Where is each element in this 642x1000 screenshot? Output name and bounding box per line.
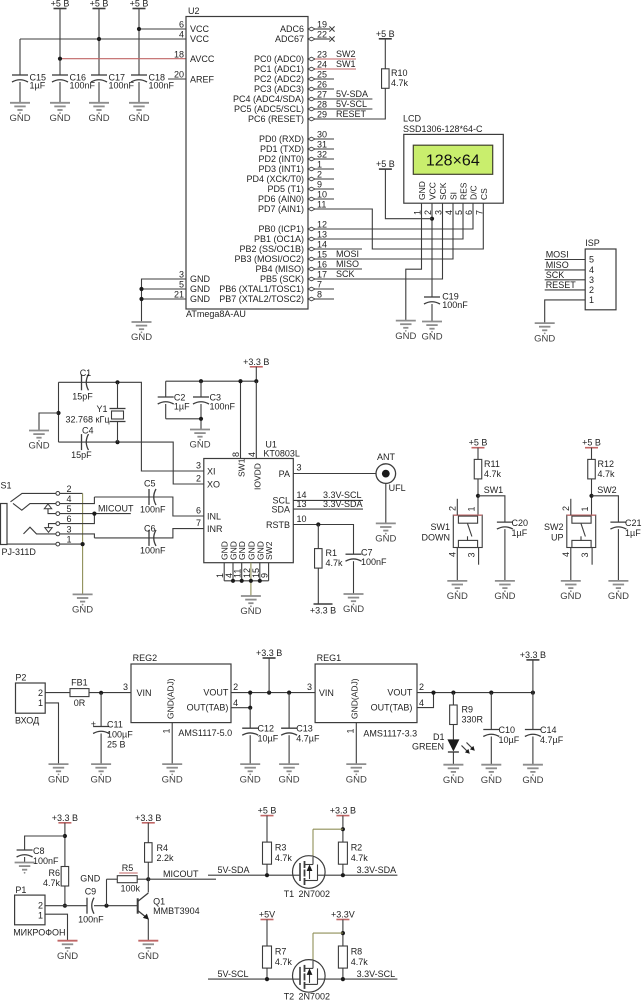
svg-text:3: 3: [179, 270, 184, 280]
svg-text:R8: R8: [351, 946, 363, 956]
svg-text:RES: RES: [459, 182, 469, 200]
wire C13 column: [288, 693, 290, 729]
ground crystal: [28, 431, 49, 452]
wire IOVDD rail: [166, 367, 257, 397]
svg-text:4.7k: 4.7k: [598, 469, 616, 479]
ground C13: [279, 764, 300, 785]
svg-text:+5 В: +5 В: [582, 438, 601, 448]
svg-text:1: 1: [467, 506, 477, 511]
svg-text:MICOUT: MICOUT: [98, 504, 134, 514]
power flag +3.3V (mic): [52, 813, 78, 823]
capacitor C15: [12, 73, 46, 103]
svg-text:2: 2: [589, 285, 594, 295]
ground SW1 pin4: [447, 581, 468, 602]
svg-text:R10: R10: [391, 68, 408, 78]
svg-text:SW1: SW1: [237, 458, 247, 477]
svg-text:5V-SDA: 5V-SDA: [336, 89, 368, 99]
svg-text:+5 В: +5 В: [258, 806, 277, 816]
svg-text:4.7k: 4.7k: [351, 853, 369, 863]
wire SW2 pin2 stub: [570, 499, 572, 515]
wire SW1 pin3 stub: [478, 548, 480, 565]
power flag +3.3V (REG2): [256, 648, 282, 658]
regulator REG1 AMS1117-3.3: [315, 653, 417, 739]
wire PD0 stub: [315, 138, 334, 140]
ground C16: [49, 103, 70, 124]
svg-text:100nF: 100nF: [109, 81, 135, 91]
svg-text:XI: XI: [207, 467, 216, 477]
capacitor C16: [52, 73, 96, 103]
capacitor C21: [610, 518, 641, 581]
SW2 pin numbers: [561, 506, 590, 558]
svg-text:GND: GND: [481, 775, 502, 786]
svg-text:C14: C14: [540, 725, 557, 735]
svg-text:29: 29: [317, 110, 327, 120]
resistor R9: [450, 705, 484, 725]
wire REG2 vout: [231, 692, 315, 694]
node 3.3V-SCL: [341, 977, 345, 981]
wire jack pin3 to C6: [60, 534, 95, 538]
node R9: [451, 691, 455, 695]
wire ADC67 nc: [315, 38, 330, 40]
svg-text:100nF: 100nF: [140, 505, 166, 515]
svg-text:+3.3 В: +3.3 В: [52, 813, 78, 823]
wire +5 to R7: [266, 920, 268, 947]
svg-text:PB5 (SCK): PB5 (SCK): [260, 274, 304, 284]
wire C17 column: [98, 9, 100, 76]
svg-text:1: 1: [589, 295, 594, 305]
wire +5V to LCD: [385, 169, 432, 219]
svg-text:R1: R1: [326, 548, 338, 558]
svg-text:7: 7: [474, 210, 484, 215]
wire PB0 to LCD D/C: [315, 203, 473, 229]
capacitor C18: [131, 73, 175, 103]
wire C6 row: [94, 529, 204, 538]
svg-text:SI: SI: [449, 192, 459, 200]
svg-text:5: 5: [454, 210, 464, 215]
U1 pin numbers: [196, 452, 307, 578]
svg-text:PD2 (INT0): PD2 (INT0): [258, 154, 304, 164]
node VCC pin6: [137, 27, 141, 31]
wire PC2 stub: [315, 78, 334, 80]
svg-text:PC3 (ADC3): PC3 (ADC3): [254, 84, 304, 94]
svg-text:2: 2: [233, 682, 238, 692]
svg-text:2N7002: 2N7002: [299, 991, 331, 1000]
net SW1 (PC1): [315, 59, 356, 69]
wire R2 bottom: [342, 864, 344, 875]
wire R5 right: [137, 878, 148, 880]
wire R1 bottom: [317, 568, 319, 604]
svg-text:27: 27: [317, 90, 327, 100]
wire jack pin1: [60, 543, 83, 545]
svg-text:4.7k: 4.7k: [275, 957, 293, 967]
svg-text:PB0 (ICP1): PB0 (ICP1): [258, 224, 304, 234]
capacitor C12: [242, 724, 278, 765]
node jack gnd: [81, 542, 85, 546]
svg-text:6: 6: [179, 20, 184, 30]
wire PB1 to LCD RES: [315, 203, 463, 239]
switch SW2 labels: [544, 522, 564, 543]
svg-text:1: 1: [67, 535, 72, 545]
transistor Q1 MMBT3904: [138, 879, 200, 919]
node REG2 tab: [248, 706, 252, 710]
svg-text:2.2k: 2.2k: [157, 853, 175, 863]
svg-text:PB6 (XTAL1/TOSC1): PB6 (XTAL1/TOSC1): [219, 284, 304, 294]
wire SW1 pin2 stub: [456, 499, 458, 515]
svg-text:GND: GND: [162, 774, 183, 785]
svg-text:3: 3: [589, 275, 594, 285]
svg-text:100nF: 100nF: [78, 915, 104, 925]
svg-text:SSD1306-128*64-C: SSD1306-128*64-C: [403, 124, 483, 134]
svg-text:VOUT: VOUT: [387, 687, 413, 697]
svg-text:Y1: Y1: [97, 404, 108, 414]
node RSTB: [316, 522, 320, 526]
wire C12 column: [249, 708, 251, 729]
node crystal top: [115, 380, 119, 384]
capacitor C6: [140, 524, 166, 556]
svg-text:PD7 (AIN1): PD7 (AIN1): [258, 204, 304, 214]
svg-text:GND(ADJ): GND(ADJ): [166, 678, 176, 719]
svg-text:3: 3: [434, 210, 444, 215]
ground ANT: [375, 523, 396, 544]
wire +3.3 mic: [64, 823, 66, 867]
power flag +5V (C16): [51, 0, 70, 9]
svg-text:IOVDD: IOVDD: [252, 463, 262, 490]
svg-text:LCD: LCD: [403, 114, 422, 124]
svg-text:XO: XO: [207, 480, 220, 490]
svg-text:16: 16: [317, 260, 327, 270]
svg-text:ATmega8A-AU: ATmega8A-AU: [186, 309, 246, 319]
svg-text:PD4 (XCK/T0): PD4 (XCK/T0): [246, 174, 304, 184]
wire C5 row: [94, 497, 204, 516]
svg-text:25: 25: [317, 70, 327, 80]
svg-text:GND: GND: [560, 591, 581, 602]
svg-text:23: 23: [317, 50, 327, 60]
ground C21: [608, 581, 629, 602]
svg-text:3.3V-SDA: 3.3V-SDA: [323, 499, 363, 509]
svg-text:100nF: 100nF: [149, 81, 175, 91]
wire R1 top: [317, 525, 319, 549]
net 5V-SCL: [208, 969, 293, 979]
power flag +5V (SW1): [469, 438, 488, 448]
svg-text:+3.3 В: +3.3 В: [330, 806, 356, 816]
wire drain rail: [313, 933, 343, 961]
node SW1 pin8: [238, 379, 242, 383]
svg-text:+3.3 В: +3.3 В: [256, 648, 282, 658]
node AVCC: [58, 57, 62, 61]
wire SW1 pin4: [456, 548, 458, 581]
svg-text:7: 7: [196, 518, 201, 528]
svg-text:REG1: REG1: [317, 653, 342, 663]
wire +3.3 to R2: [342, 816, 344, 843]
wire Q1 emitter gnd: [147, 919, 149, 941]
svg-text:11: 11: [317, 200, 326, 210]
svg-text:GND: GND: [443, 775, 464, 786]
svg-text:4.7k: 4.7k: [326, 558, 344, 568]
wire REG1 tab: [417, 693, 434, 708]
svg-text:ADC67: ADC67: [275, 34, 304, 44]
net SW2 (PC0): [315, 49, 356, 59]
svg-text:SCK: SCK: [546, 270, 565, 280]
net MISO (ISP): [545, 260, 586, 270]
svg-text:2N7002: 2N7002: [299, 889, 331, 899]
wire SW2 pin4: [570, 548, 572, 581]
capacitor C1: [72, 368, 93, 402]
svg-text:1µF: 1µF: [30, 81, 46, 91]
svg-text:GND: GND: [534, 333, 555, 344]
power flag +3.3V (R8): [331, 910, 355, 920]
node gnd bus 3: [249, 579, 253, 583]
wire D1 gnd: [452, 752, 454, 765]
wire XO net: [59, 442, 205, 484]
resistor R11: [474, 459, 501, 479]
svg-text:GND: GND: [343, 604, 364, 615]
net SCK (PB5) to LCD SCK: [315, 203, 443, 279]
svg-text:GND: GND: [57, 951, 78, 962]
svg-text:4: 4: [561, 552, 571, 557]
ferrite bead FB1: [70, 677, 89, 708]
svg-text:GND: GND: [421, 332, 442, 343]
wire R8 bottom: [342, 968, 344, 979]
svg-text:C1: C1: [80, 368, 92, 378]
svg-text:GND: GND: [9, 113, 30, 124]
svg-text:1: 1: [317, 160, 322, 170]
node GND pin5: [139, 287, 143, 291]
net MICOUT (Q1): [148, 869, 216, 879]
ground P1: [57, 941, 78, 962]
wire to C8: [25, 836, 65, 850]
ground C18: [128, 103, 149, 124]
svg-text:8: 8: [317, 290, 322, 300]
connector P1: [13, 885, 65, 937]
ground C11: [91, 764, 112, 785]
node MICOUT: [92, 511, 96, 515]
node C3 bottom: [199, 417, 203, 421]
svg-text:10µF: 10µF: [258, 734, 279, 744]
svg-text:AVCC: AVCC: [190, 54, 215, 64]
IC U1 KT0803L: [204, 440, 300, 563]
node gnd bus 2: [240, 579, 244, 583]
wire LCD VCC pin2: [431, 203, 433, 297]
svg-text:4: 4: [179, 30, 184, 40]
wire +3.3 R4: [147, 823, 149, 843]
svg-text:OUT(TAB): OUT(TAB): [187, 702, 229, 712]
resistor R3: [263, 842, 293, 864]
svg-text:4: 4: [67, 494, 72, 504]
svg-text:PC2 (ADC2): PC2 (ADC2): [254, 74, 304, 84]
ground D1: [443, 765, 464, 786]
svg-text:2: 2: [196, 474, 201, 484]
transistor T1 label: [284, 889, 330, 899]
svg-text:R12: R12: [598, 459, 615, 469]
svg-text:C21: C21: [625, 518, 642, 528]
svg-text:R11: R11: [484, 459, 500, 469]
wire PD1 stub: [315, 148, 334, 150]
node LCD VCC: [430, 217, 434, 221]
svg-text:AMS1117-3.3: AMS1117-3.3: [363, 729, 417, 739]
svg-text:MOSI: MOSI: [336, 249, 359, 259]
net MOSI (ISP): [545, 250, 586, 260]
svg-text:+5 В: +5 В: [469, 438, 488, 448]
ground C12: [240, 764, 261, 785]
capacitor C9: [78, 887, 104, 925]
svg-text:GND: GND: [189, 440, 210, 451]
svg-text:2: 2: [38, 688, 43, 698]
node IOVDD: [254, 379, 258, 383]
svg-text:100nF: 100nF: [210, 402, 236, 412]
SW1 pin numbers: [447, 506, 476, 558]
node gnd bus 1: [231, 579, 235, 583]
IC U2 ATmega8A-AU: [174, 6, 308, 319]
svg-text:PB3 (MOSI/OC2): PB3 (MOSI/OC2): [234, 254, 304, 264]
svg-text:PB2 (SS/OC1B): PB2 (SS/OC1B): [239, 244, 304, 254]
svg-text:REG2: REG2: [133, 653, 158, 663]
node 3.3V-SDA: [341, 873, 345, 877]
power flag +3.3V (R4): [135, 813, 161, 823]
svg-text:1: 1: [346, 728, 356, 733]
svg-text:0R: 0R: [74, 698, 86, 708]
wire R10 to +5V: [384, 39, 386, 69]
resistor R5: [117, 863, 140, 894]
svg-text:100nF: 100nF: [442, 300, 468, 310]
wire SW1 to C20: [478, 496, 505, 522]
svg-text:UP: UP: [551, 533, 564, 543]
svg-text:1: 1: [38, 698, 43, 708]
svg-text:T1: T1: [284, 889, 295, 899]
svg-text:+3.3 В: +3.3 В: [520, 650, 546, 660]
svg-text:1µF: 1µF: [512, 528, 528, 538]
ground P2: [48, 764, 69, 785]
wire +5V to R12: [591, 448, 593, 460]
node SW1: [476, 494, 480, 498]
wire U1 gnd bus: [224, 563, 268, 596]
capacitor C17: [91, 73, 135, 103]
svg-text:R2: R2: [351, 843, 363, 853]
capacitor C4: [71, 426, 93, 461]
svg-text:P1: P1: [15, 885, 26, 895]
svg-text:330R: 330R: [462, 715, 484, 725]
switch SW1 labels: [422, 522, 451, 543]
regulator REG2 AMS1117-5.0: [131, 653, 232, 738]
resistor R8: [338, 946, 368, 968]
svg-text:32.768 кГц: 32.768 кГц: [66, 415, 110, 425]
LCD module SSD1306-128*64-C: [403, 114, 503, 204]
svg-text:SW2: SW2: [264, 541, 274, 560]
net SCK (ISP): [545, 270, 586, 280]
wire ANT gnd: [385, 483, 387, 523]
svg-text:PB1 (OC1A): PB1 (OC1A): [254, 234, 304, 244]
wire P1 pin1 gnd: [45, 914, 68, 941]
ground C7: [343, 594, 364, 615]
svg-text:+3.3 В: +3.3 В: [310, 606, 336, 616]
svg-text:D1: D1: [433, 732, 445, 742]
svg-text:SW1: SW1: [430, 522, 450, 532]
wire R11 bottom: [477, 479, 479, 516]
svg-text:ВХОД: ВХОД: [15, 716, 39, 726]
svg-text:2: 2: [317, 170, 322, 180]
power flag +5V (R7): [259, 910, 275, 920]
svg-text:3: 3: [196, 461, 201, 471]
wire R6 bottom: [64, 886, 66, 906]
svg-text:SW2: SW2: [597, 485, 617, 495]
svg-text:5: 5: [67, 504, 72, 514]
svg-text:VIN: VIN: [137, 688, 152, 698]
svg-text:3: 3: [67, 524, 72, 534]
svg-text:+5 В: +5 В: [376, 29, 395, 39]
svg-text:GND: GND: [608, 591, 629, 602]
svg-text:15: 15: [317, 250, 327, 260]
wire C11 column: [100, 693, 102, 727]
svg-text:30: 30: [317, 130, 327, 140]
wire drain rail: [313, 829, 343, 857]
svg-text:4: 4: [444, 210, 454, 215]
svg-text:2: 2: [447, 506, 457, 511]
power flag +5V (SW2): [582, 438, 601, 448]
svg-text:2: 2: [419, 682, 424, 692]
wire R3 bottom: [266, 864, 268, 875]
svg-text:C20: C20: [512, 518, 529, 528]
ground U1: [240, 596, 261, 617]
ground C17: [88, 103, 109, 124]
svg-text:R4: R4: [157, 843, 169, 853]
node SW2: [589, 494, 593, 498]
svg-text:4: 4: [589, 265, 594, 275]
svg-text:GND: GND: [494, 591, 515, 602]
svg-text:+3.3 В: +3.3 В: [243, 357, 269, 367]
svg-text:VIN: VIN: [319, 688, 334, 698]
svg-text:GND: GND: [417, 181, 427, 200]
svg-text:5: 5: [179, 280, 184, 290]
svg-text:2: 2: [38, 901, 43, 911]
node GND pin21: [139, 297, 143, 301]
ground Q1: [138, 941, 159, 962]
svg-text:+5 В: +5 В: [130, 0, 149, 9]
svg-text:GND: GND: [447, 591, 468, 602]
svg-text:VOUT: VOUT: [203, 687, 229, 697]
svg-text:C11: C11: [107, 720, 123, 730]
svg-text:R7: R7: [275, 946, 287, 956]
svg-text:1: 1: [162, 728, 172, 733]
svg-text:PC0 (ADC0): PC0 (ADC0): [254, 54, 304, 64]
svg-text:VCC: VCC: [190, 24, 210, 34]
node VCC pin4: [97, 37, 101, 41]
ground REG2: [162, 764, 183, 785]
ground ISP: [534, 323, 555, 344]
wire +5V to R11: [477, 448, 479, 460]
svg-text:MISO: MISO: [336, 259, 359, 269]
svg-text:PC4 (ADC4/SDA): PC4 (ADC4/SDA): [233, 94, 304, 104]
wire C10 column: [490, 693, 492, 730]
svg-text:5V-SCL: 5V-SCL: [218, 969, 249, 979]
svg-text:6: 6: [196, 506, 201, 516]
wire XO net bottom: [58, 382, 60, 442]
svg-text:100nF: 100nF: [140, 546, 166, 556]
svg-text:GND: GND: [240, 606, 261, 617]
connector S1 PJ-311D: [1, 481, 72, 558]
wire REG2 tab: [231, 693, 250, 708]
capacitor C10: [483, 725, 519, 765]
diode D1 LED: [412, 732, 475, 754]
wire PD3 stub: [315, 168, 334, 170]
svg-text:1µF: 1µF: [174, 402, 190, 412]
wire +5 to R3: [266, 816, 268, 843]
power flag +3.3V (REG1): [520, 650, 546, 660]
svg-text:PJ-311D: PJ-311D: [2, 547, 37, 557]
svg-text:12: 12: [317, 220, 327, 230]
svg-text:5V-SDA: 5V-SDA: [218, 865, 250, 875]
ground C19: [421, 322, 442, 343]
wire ADC6 nc: [315, 28, 330, 30]
svg-text:GND: GND: [138, 951, 159, 962]
